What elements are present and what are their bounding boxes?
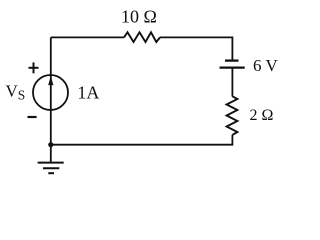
svg-text:6 V: 6 V (253, 56, 278, 75)
wire right lower (231, 135, 233, 146)
wire top-right segment (160, 36, 232, 38)
wire bottom (51, 144, 233, 146)
resistor R1 10 ohm (124, 32, 160, 42)
resistor R2 2 ohm (227, 96, 238, 135)
plus sign (29, 62, 39, 73)
minus sign (28, 116, 37, 118)
ground symbol (38, 163, 64, 174)
svg-text:1A: 1A (77, 83, 99, 103)
svg-text:V: V (6, 81, 19, 100)
svg-text:10 Ω: 10 Ω (121, 7, 157, 27)
ground stem (50, 145, 52, 163)
junction node dot (48, 142, 53, 147)
current source U1 circle (33, 75, 68, 110)
wire right upper (to battery) (231, 37, 233, 61)
wire left (through source) (50, 37, 52, 144)
wire battery to resistor (231, 68, 233, 97)
current source arrowhead (49, 77, 53, 85)
label Vs (6, 81, 26, 102)
svg-text:2 Ω: 2 Ω (250, 107, 274, 124)
svg-text:S: S (18, 87, 26, 102)
wire top-left segment (51, 36, 124, 38)
battery V1 (220, 61, 245, 68)
